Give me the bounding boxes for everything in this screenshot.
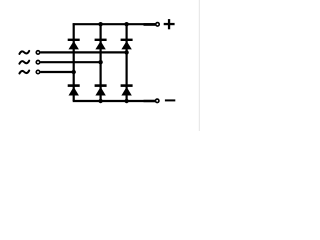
- terminal L1: [36, 51, 40, 55]
- node top rail column2: [98, 22, 102, 26]
- node bottom rail column3: [124, 99, 128, 103]
- diode D4: [68, 84, 80, 95]
- terminal L3: [36, 70, 40, 74]
- wire bottom rail: [73, 100, 156, 102]
- wire bottom rail stub: [144, 100, 156, 102]
- wire phase L3: [40, 71, 73, 73]
- wire column 1: [73, 23, 75, 101]
- diode D3: [95, 39, 107, 50]
- diode D2: [121, 84, 133, 95]
- tilde L3: [19, 71, 29, 74]
- label -: [165, 99, 175, 101]
- wire column 3: [125, 24, 127, 101]
- wire phase L1: [40, 51, 126, 53]
- node bottom rail column2: [98, 99, 102, 103]
- terminal L2: [36, 60, 40, 64]
- node L1-column3: [124, 50, 128, 54]
- tilde L1: [19, 51, 29, 54]
- wire top rail stub: [144, 23, 156, 26]
- node L3-column1: [72, 70, 76, 74]
- node top rail column3: [124, 22, 128, 26]
- wire top rail: [73, 23, 156, 25]
- diode D6: [95, 84, 107, 95]
- diode D5: [121, 39, 133, 50]
- tilde L2: [19, 61, 29, 64]
- label +: [164, 19, 175, 29]
- diode D1: [68, 39, 80, 50]
- wire phase L2: [40, 61, 100, 63]
- wire column 2: [99, 24, 101, 101]
- terminal - output: [155, 99, 159, 103]
- terminal + output: [156, 23, 160, 27]
- node L2-column2: [98, 60, 102, 64]
